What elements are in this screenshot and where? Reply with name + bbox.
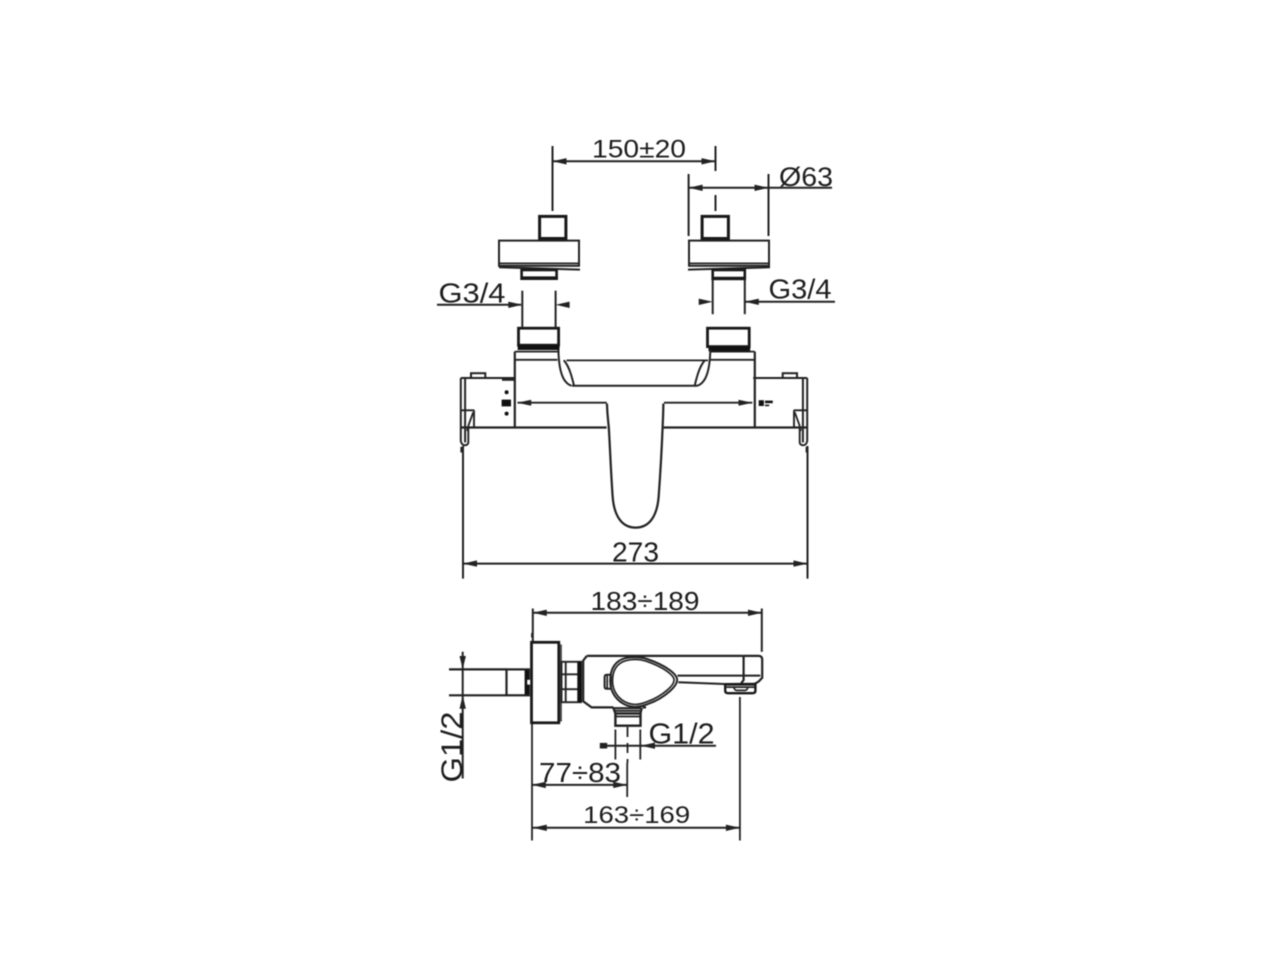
left wall bracket: [461, 373, 515, 452]
outlet extension lines: [615, 727, 640, 797]
left knob square: [540, 216, 566, 240]
right knob body: [688, 241, 770, 270]
left marking glyphs: [502, 390, 511, 415]
spout end: [741, 656, 762, 684]
wall plate: [532, 642, 559, 723]
right marking glyphs: [759, 400, 773, 406]
svg-text:163÷169: 163÷169: [583, 802, 690, 829]
svg-text:G3/4: G3/4: [769, 274, 832, 305]
central spout U: [607, 404, 664, 528]
dimension 150±20 line: [553, 146, 716, 211]
dimension Ø63 lines: [689, 174, 832, 236]
spout top line: [587, 655, 743, 657]
outlet flange: [613, 708, 641, 726]
left pipe: [522, 291, 555, 327]
dimension Ø63 arrows: [689, 185, 769, 191]
cartridge body: [583, 656, 646, 708]
hex nut: [562, 662, 582, 702]
inlet pipe lines: [449, 669, 507, 695]
handle (oval) outer: [610, 657, 677, 707]
aerator: [725, 684, 755, 693]
G1/2 left dimension: [462, 652, 464, 779]
right wall bracket: [753, 373, 807, 452]
left union flange: [519, 328, 559, 345]
right union flange: [708, 328, 750, 346]
wall reference line (left extension): [531, 633, 533, 841]
svg-text:150±20: 150±20: [592, 136, 686, 164]
body left fillet: [558, 350, 574, 386]
inlet pipe block: [507, 669, 529, 695]
left knob base: [522, 270, 557, 279]
left knob body: [499, 241, 580, 270]
right union dark band: [709, 347, 751, 351]
svg-text:183÷189: 183÷189: [591, 586, 700, 616]
svg-text:77÷83: 77÷83: [539, 757, 621, 788]
left union dark band: [518, 345, 560, 350]
body right fillet: [695, 350, 711, 386]
handle (oval) inner: [613, 659, 675, 704]
spout body lines: [678, 676, 761, 684]
handle tab: [605, 675, 611, 689]
spout vertical extension: [739, 697, 741, 841]
svg-text:G1/2: G1/2: [436, 712, 469, 783]
wall plate shadow edge: [560, 645, 562, 722]
dimension 150±20 arrows: [553, 158, 716, 164]
right knob square: [702, 216, 728, 240]
mixer body outline: [461, 352, 807, 428]
right pipe: [713, 279, 745, 314]
right knob base: [713, 270, 745, 279]
body interior arrows line: [518, 402, 753, 404]
